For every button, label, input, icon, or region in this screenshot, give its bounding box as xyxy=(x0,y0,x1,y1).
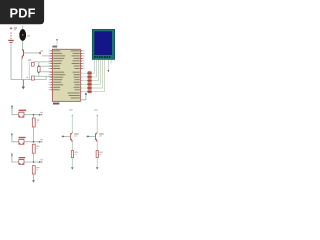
terminal arrow at Q1 base xyxy=(38,52,40,54)
ground arrow B xyxy=(96,167,99,169)
row1 terminal arrow xyxy=(39,114,41,116)
row1 junction xyxy=(33,114,35,116)
wire R3 to ground xyxy=(33,174,35,181)
LCD1 pin pads xyxy=(94,56,110,58)
resistor R5 xyxy=(96,151,98,158)
wire power to Q2 xyxy=(71,116,73,132)
transistor Q1 xyxy=(22,49,24,57)
wire power to Q3 xyxy=(96,116,98,132)
row3 button SW3 xyxy=(19,160,24,165)
chip U1 body xyxy=(52,49,80,101)
wire R5 to ground xyxy=(96,158,98,168)
row1 switch label xyxy=(19,110,27,111)
wires chip to resistor network xyxy=(80,73,87,92)
chip U1 left pin numbers xyxy=(49,50,50,90)
ground rail wire xyxy=(11,79,46,81)
wire into RA2 xyxy=(40,65,52,67)
terminal arrow Q3 base xyxy=(88,135,90,137)
wire Q2 emitter to R xyxy=(71,141,73,150)
row3 junction xyxy=(33,161,35,163)
chip U1 part number label xyxy=(53,103,60,105)
LCD contrast pin stub xyxy=(107,59,109,70)
row3 switch label xyxy=(19,157,26,158)
crystal X1 xyxy=(38,67,41,72)
buzzer BZ1 xyxy=(19,29,26,41)
terminal arrow Q2 base xyxy=(63,135,65,137)
Q3 labels xyxy=(99,133,104,134)
chip U1 right pins xyxy=(80,51,82,69)
wire crystal bottom xyxy=(38,72,40,76)
wire Q1 base xyxy=(24,52,39,54)
row2 switch label xyxy=(19,137,26,138)
wire caps left rail xyxy=(28,62,30,80)
LCD1 screen xyxy=(95,32,112,55)
wire R2 to row3 xyxy=(33,153,35,162)
row1 L wire xyxy=(12,109,39,114)
wire into RA0 xyxy=(42,55,52,57)
LCD extra pin stub xyxy=(110,59,112,63)
row1 power tick xyxy=(11,105,13,107)
capacitor C1 xyxy=(31,62,34,66)
row2 button SW2 xyxy=(19,139,24,144)
buzzer BZ1 top stub xyxy=(22,26,24,30)
row3 terminal arrow xyxy=(39,161,41,163)
junction xyxy=(38,72,39,73)
resistor network RN1 body xyxy=(88,71,92,93)
wire into RA4 xyxy=(40,71,52,73)
wire OSC2 xyxy=(33,75,53,77)
L wire at chip bottom right xyxy=(80,95,86,100)
row3 power tick xyxy=(11,153,13,155)
wire Q2 base xyxy=(65,135,71,137)
PDF badge xyxy=(0,0,44,24)
resistor R3 xyxy=(32,166,35,174)
LCD1 frame xyxy=(92,29,114,59)
chip U1 designator xyxy=(52,46,57,48)
row3 L wire xyxy=(12,157,39,162)
nested wires RN1 to LCD pins xyxy=(92,59,105,91)
circuit A power arrow xyxy=(71,114,73,116)
resistor R1 xyxy=(32,118,35,127)
VCC stub above chip xyxy=(56,40,58,49)
row1 button SW1 xyxy=(19,112,24,117)
node dot near rail xyxy=(27,77,28,78)
battery B1 plus mark xyxy=(10,27,13,30)
transistor Q2 xyxy=(71,132,73,141)
buzzer BZ1 label xyxy=(27,35,30,36)
battery B1 plates xyxy=(8,40,13,41)
wire R4 to ground xyxy=(71,158,73,168)
wire crystal top xyxy=(38,62,40,67)
row2 junction xyxy=(33,141,35,143)
circuit B power arrow xyxy=(96,114,98,116)
resistor R2 xyxy=(32,144,35,153)
wire Q1 emitter down xyxy=(21,58,23,80)
ground arrow C xyxy=(32,180,35,183)
capacitor C1 label xyxy=(28,59,31,60)
wire OSC1 xyxy=(33,61,53,63)
ground arrow A xyxy=(71,167,74,169)
row2 L wire xyxy=(12,137,39,142)
wire R1 to row2 xyxy=(33,115,35,118)
chip U1 right pin numbers xyxy=(83,50,84,69)
row2 power tick xyxy=(11,133,13,135)
battery B1 label xyxy=(14,27,17,28)
resistor network RN1 stripes xyxy=(87,72,91,92)
junction xyxy=(38,65,39,66)
chip U1 left pins xyxy=(50,51,52,90)
wire Q3 emitter to R xyxy=(96,141,98,150)
chip U1 left pin labels xyxy=(53,50,65,90)
wire rail jog to chip xyxy=(45,76,47,79)
transistor Q3 xyxy=(96,132,98,141)
svg-text:PDF: PDF xyxy=(10,5,36,20)
chip U1 right pin labels xyxy=(68,50,80,98)
Q2 labels xyxy=(74,133,79,134)
battery B1 cells xyxy=(10,32,12,39)
row2 terminal arrow xyxy=(39,141,41,143)
up arrow terminal xyxy=(85,92,87,95)
resistor R4 xyxy=(71,151,73,158)
wire buzzer to Q1 collector xyxy=(22,41,24,50)
ground arrow GND1 xyxy=(22,80,24,87)
wire battery to ground rail xyxy=(10,43,12,80)
chip U1 right pins section B xyxy=(80,73,82,92)
wire Q3 base xyxy=(90,135,96,137)
capacitor C2 xyxy=(31,76,34,80)
